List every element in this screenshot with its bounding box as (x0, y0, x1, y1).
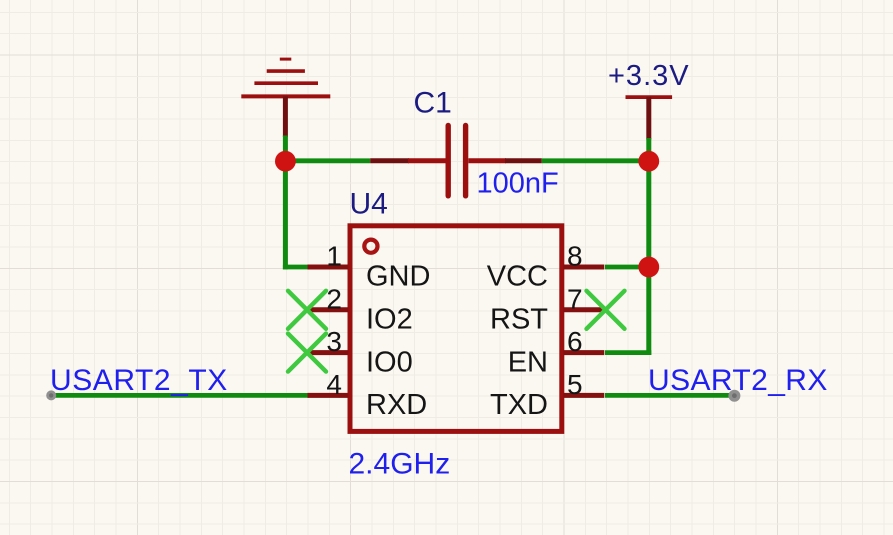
svg-text:U4: U4 (350, 188, 388, 221)
capacitor C1 (370, 126, 542, 196)
pin 1 indicator (364, 240, 377, 253)
wire (283, 265, 309, 270)
pin 5 (TXD) (490, 369, 604, 421)
svg-text:GND: GND (366, 261, 430, 293)
svg-text:2: 2 (326, 283, 342, 314)
svg-text:+3.3V: +3.3V (608, 60, 690, 92)
endpoint dot (46, 390, 56, 400)
pin 4 (RXD) (308, 369, 428, 421)
endpoint dot (728, 390, 740, 402)
pin 2 (IO2) (308, 283, 413, 335)
pin 1 (GND) (308, 241, 431, 293)
svg-text:USART2_TX: USART2_TX (50, 364, 228, 397)
svg-text:IO2: IO2 (366, 304, 413, 336)
wire (646, 138, 651, 161)
svg-text:100nF: 100nF (477, 168, 559, 200)
wire USART2_TX (50, 393, 309, 398)
svg-text:VCC: VCC (487, 261, 548, 293)
svg-text:7: 7 (567, 283, 583, 314)
svg-text:4: 4 (326, 369, 342, 400)
svg-text:5: 5 (567, 369, 583, 400)
no-connect X pin 3 (288, 334, 326, 372)
svg-text:IO0: IO0 (366, 346, 413, 378)
svg-text:RST: RST (490, 304, 548, 336)
svg-text:C1: C1 (414, 87, 452, 120)
IC U4 (350, 226, 562, 432)
svg-text:6: 6 (567, 326, 583, 357)
no-connect X pin 2 (288, 291, 326, 329)
wire (605, 350, 651, 355)
no-connect X pin 7 (587, 291, 625, 329)
pin 7 (RST) (490, 283, 604, 335)
wire (285, 158, 370, 163)
wire (283, 161, 288, 270)
wire (646, 161, 651, 355)
svg-text:2.4GHz: 2.4GHz (349, 448, 451, 481)
svg-text:TXD: TXD (490, 389, 548, 421)
svg-text:1: 1 (326, 241, 342, 272)
svg-text:3: 3 (326, 326, 342, 357)
pin 6 (EN) (508, 326, 605, 378)
junction (638, 257, 659, 278)
junction (638, 151, 659, 172)
wire (605, 265, 649, 270)
svg-text:RXD: RXD (366, 389, 427, 421)
pin 3 (IO0) (308, 326, 413, 378)
wire (542, 158, 649, 163)
wire (283, 136, 288, 161)
svg-text:8: 8 (567, 241, 583, 272)
pin 8 (VCC) (487, 241, 605, 293)
junction (275, 151, 296, 172)
svg-text:EN: EN (508, 346, 548, 378)
wire USART2_RX (605, 393, 734, 398)
ground (241, 59, 330, 137)
power +3.3V (626, 97, 673, 139)
